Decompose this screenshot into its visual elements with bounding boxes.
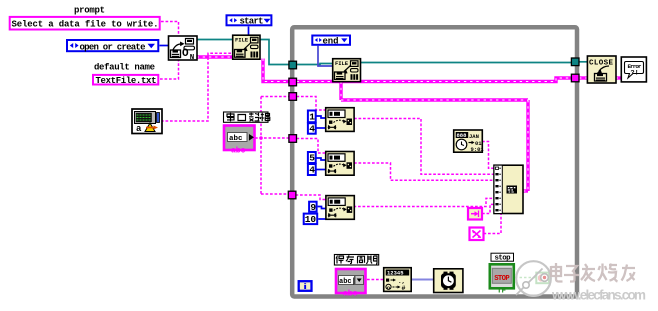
svg-text:9:01: 9:01 bbox=[471, 146, 485, 153]
svg-text:TextFile.txt: TextFile.txt bbox=[96, 76, 157, 86]
svg-text:TF: TF bbox=[497, 288, 507, 296]
svg-text:FILE: FILE bbox=[235, 37, 249, 44]
svg-text:O: O bbox=[182, 48, 189, 60]
svg-text:stop: stop bbox=[495, 255, 512, 263]
svg-text:FILE: FILE bbox=[335, 60, 349, 67]
svg-text:?!: ?! bbox=[631, 70, 639, 78]
svg-text:a: a bbox=[136, 124, 142, 134]
svg-text:STOP: STOP bbox=[494, 275, 510, 283]
svg-text:12345: 12345 bbox=[387, 270, 404, 277]
svg-text:4: 4 bbox=[309, 124, 315, 135]
svg-text:prompt: prompt bbox=[74, 5, 105, 15]
svg-text:abc: abc bbox=[229, 135, 243, 143]
svg-text:Select a data file to write.: Select a data file to write. bbox=[12, 19, 159, 29]
svg-text:start: start bbox=[240, 17, 264, 27]
svg-text:www.elecfans.com: www.elecfans.com bbox=[551, 288, 646, 303]
svg-text:.,: ., bbox=[398, 278, 405, 285]
svg-text:1: 1 bbox=[309, 112, 315, 123]
svg-text:abc: abc bbox=[231, 147, 246, 156]
svg-text:10: 10 bbox=[305, 214, 317, 225]
svg-text:end: end bbox=[323, 37, 339, 47]
svg-text:JAN: JAN bbox=[469, 133, 479, 140]
svg-text:abc: abc bbox=[343, 290, 358, 299]
svg-text:CLOSE: CLOSE bbox=[589, 59, 613, 67]
svg-text:#: # bbox=[402, 285, 406, 292]
svg-text:888: 888 bbox=[457, 132, 468, 139]
svg-text:N: N bbox=[190, 54, 195, 62]
svg-text:4: 4 bbox=[309, 165, 315, 176]
svg-text:5: 5 bbox=[309, 153, 315, 164]
svg-text:default name: default name bbox=[94, 62, 155, 72]
svg-text:9: 9 bbox=[310, 202, 316, 213]
svg-text:abc|: abc| bbox=[339, 278, 356, 286]
svg-text:open or create: open or create bbox=[80, 42, 146, 52]
